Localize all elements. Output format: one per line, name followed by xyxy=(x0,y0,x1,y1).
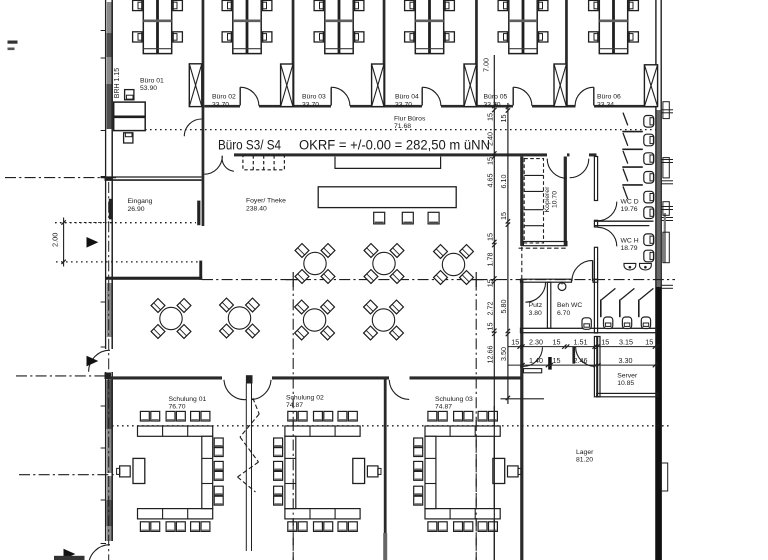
Putz/BehWC north wall xyxy=(521,279,598,282)
svg-text:2.30: 2.30 xyxy=(529,338,543,347)
svg-text:4.65: 4.65 xyxy=(486,174,495,188)
svg-text:3.30: 3.30 xyxy=(619,356,633,365)
room label Foyer xyxy=(246,198,286,213)
training rooms dotted guide xyxy=(112,425,670,427)
svg-text:6.10: 6.10 xyxy=(499,175,508,189)
room label Kopierer (rotated) xyxy=(544,186,559,212)
room label Buero 03 xyxy=(302,94,326,109)
svg-text:.15: .15 xyxy=(486,323,495,333)
room label Buero 06 xyxy=(597,94,621,109)
round table F4 xyxy=(151,299,191,339)
svg-text:Eingang: Eingang xyxy=(128,198,153,205)
entrance arrow 1 xyxy=(87,237,99,248)
corner markers top left xyxy=(8,41,18,51)
svg-text:1.40: 1.40 xyxy=(529,356,543,365)
svg-text:Schulung 03: Schulung 03 xyxy=(435,396,473,403)
hallway guide line xyxy=(501,398,545,400)
vertical dimension chain B ticks xyxy=(506,105,510,400)
bar stools xyxy=(374,212,439,224)
section line A xyxy=(493,55,495,560)
right exterior wall xyxy=(656,0,662,560)
svg-text:18.79: 18.79 xyxy=(621,245,638,252)
round table F5 xyxy=(220,298,260,338)
svg-text:6.70: 6.70 xyxy=(557,310,570,317)
svg-text:33.70: 33.70 xyxy=(484,101,501,108)
svg-text:Büro 01: Büro 01 xyxy=(140,77,164,84)
storage west wall xyxy=(520,157,523,560)
svg-text:12.66: 12.66 xyxy=(486,346,495,364)
axis line (vertical, left wall) xyxy=(108,182,110,560)
round table F7 xyxy=(364,300,404,340)
svg-text:10.85: 10.85 xyxy=(617,380,634,387)
svg-text:2.00: 2.00 xyxy=(51,233,60,247)
dimension 2.00 xyxy=(51,218,114,267)
svg-text:15: 15 xyxy=(511,338,519,347)
section line B xyxy=(507,103,509,404)
axis line (horizontal, Schulung wall) xyxy=(16,375,110,377)
door Buero 04 xyxy=(422,87,441,106)
svg-text:Büro S3/ S4: Büro S3/ S4 xyxy=(218,137,281,152)
svg-text:26.90: 26.90 xyxy=(128,206,145,213)
svg-text:33.70: 33.70 xyxy=(302,101,319,108)
room label WC D xyxy=(621,199,639,214)
round table F6 xyxy=(295,300,335,340)
WC anteroom north door xyxy=(570,159,589,178)
room label Lager xyxy=(576,449,594,464)
room label Buero 05 xyxy=(484,94,508,109)
svg-text:19.76: 19.76 xyxy=(621,206,638,213)
svg-text:5.80: 5.80 xyxy=(499,300,508,314)
office partition walls xyxy=(202,0,568,226)
svg-text:53.90: 53.90 xyxy=(140,85,157,92)
title text xyxy=(218,137,490,152)
svg-text:74.87: 74.87 xyxy=(286,402,303,409)
entrance dotted guide upper xyxy=(55,222,196,224)
svg-text:2.72: 2.72 xyxy=(486,302,495,316)
svg-text:3.15: 3.15 xyxy=(619,338,633,347)
shaft B04 xyxy=(464,64,476,107)
axis line (vertical, grid C) xyxy=(469,272,484,560)
entrance arrow 2 xyxy=(87,356,99,367)
room label Schulung 02 xyxy=(286,394,324,409)
axis line (horizontal, lectern) xyxy=(19,474,116,476)
svg-text:74.87: 74.87 xyxy=(435,403,452,410)
svg-text:15: 15 xyxy=(645,338,653,347)
door Buero 03 xyxy=(331,87,350,106)
svg-text:WC D: WC D xyxy=(621,199,639,206)
dashed opening line below Kopierer xyxy=(519,247,567,249)
WC D stall partitions xyxy=(622,113,643,200)
dimension texts chain A xyxy=(482,58,495,364)
axis line (vertical, grid B) xyxy=(286,272,301,560)
hallway door 2 (2.46) xyxy=(572,347,595,367)
door Buero 02 xyxy=(240,87,259,106)
svg-text:7.00: 7.00 xyxy=(482,58,491,72)
sanitary block south wall xyxy=(521,328,657,332)
vertical dimension chain A ticks xyxy=(492,104,496,336)
room label Schulung 03 xyxy=(435,396,473,411)
svg-text:Flur Büros: Flur Büros xyxy=(394,115,426,122)
sideboard at foyer wall xyxy=(335,157,441,169)
shaft B02 xyxy=(281,64,293,107)
side desk Buero 01 xyxy=(114,90,146,143)
desk group Buero 05 xyxy=(498,0,548,54)
grid C overlay xyxy=(475,420,477,560)
svg-text:15: 15 xyxy=(499,115,508,123)
svg-text:Büro 05: Büro 05 xyxy=(484,94,508,101)
entrance lobby north wall xyxy=(105,177,202,180)
training tables Schulung 01 xyxy=(117,411,224,531)
wall between Schulung 02 and 03 xyxy=(383,377,387,560)
entrance arrow 3 xyxy=(64,549,76,560)
room label Schulung 01 xyxy=(169,396,207,411)
corridor north wall (office front wall) xyxy=(204,105,656,108)
svg-text:Lager: Lager xyxy=(576,449,594,456)
svg-text:15: 15 xyxy=(499,212,508,220)
room label Flur Bueros xyxy=(394,115,426,130)
svg-text:71.68: 71.68 xyxy=(394,123,411,130)
section line A overlay (through furniture) xyxy=(493,406,495,560)
axis cross at entrance wall xyxy=(101,177,117,179)
svg-text:Schulung 02: Schulung 02 xyxy=(286,394,324,401)
room label Beh WC xyxy=(557,302,582,317)
shaft B03 xyxy=(372,64,384,107)
dimension texts chain B xyxy=(499,115,508,362)
svg-text:33.70: 33.70 xyxy=(395,101,412,108)
mobile partition Schulung 01/02 xyxy=(238,384,260,552)
server room walls xyxy=(597,337,658,397)
svg-text:3.80: 3.80 xyxy=(529,310,542,317)
WC H door xyxy=(598,227,617,246)
svg-text:3.50: 3.50 xyxy=(499,347,508,361)
foyer north wall xyxy=(234,153,597,156)
corridor dotted guide xyxy=(145,129,656,131)
Kopierer room walls xyxy=(523,157,567,246)
Putz / Beh WC divider wall xyxy=(547,282,550,328)
desk group Buero 03 xyxy=(314,0,364,54)
axis line (horizontal, mid foyer) xyxy=(202,279,675,281)
svg-text:81.20: 81.20 xyxy=(576,457,593,464)
shaft B06 xyxy=(644,65,657,107)
left wall window sill ticks xyxy=(101,31,106,544)
right wall exterior ticks xyxy=(661,102,673,491)
room label Putz xyxy=(529,302,543,317)
Theke counter xyxy=(318,187,456,208)
Schulung 03 door xyxy=(389,380,409,400)
svg-text:15: 15 xyxy=(486,113,495,121)
hallway door 1 (1.40) xyxy=(523,347,543,373)
svg-text:BRH 1.15: BRH 1.15 xyxy=(114,68,121,98)
horizontal dimension chain lower xyxy=(508,356,658,367)
room label Buero 02 xyxy=(212,94,236,109)
svg-text:15: 15 xyxy=(553,356,561,365)
round table F1 xyxy=(295,244,335,284)
door Buero 06 xyxy=(575,87,594,106)
wardrobe (dashed) xyxy=(243,155,285,170)
svg-text:Büro 04: Büro 04 xyxy=(395,94,419,101)
svg-text:15: 15 xyxy=(553,338,561,347)
desk group Buero 04 xyxy=(405,0,455,54)
svg-text:WC H: WC H xyxy=(621,238,639,245)
room label Server xyxy=(617,373,638,388)
WC H urinals xyxy=(624,263,651,270)
svg-text:Büro 06: Büro 06 xyxy=(597,94,621,101)
svg-text:76.70: 76.70 xyxy=(169,403,186,410)
training tables Schulung 02 xyxy=(274,411,381,531)
door Buero 05 xyxy=(513,87,532,106)
WC H toilets xyxy=(644,234,654,262)
WC D toilets xyxy=(644,116,654,219)
svg-text:15: 15 xyxy=(601,338,609,347)
entrance door (west wall) xyxy=(89,350,110,372)
svg-text:33.34: 33.34 xyxy=(597,101,614,108)
round table F2 xyxy=(364,244,404,284)
svg-text:Beh WC: Beh WC xyxy=(557,302,582,309)
Beh WC door xyxy=(572,260,593,281)
horizontal dimension chain upper xyxy=(508,338,660,349)
Beh WC fixtures xyxy=(558,282,591,330)
Kopierer shelf xyxy=(524,159,543,243)
axis line A (horizontal, entrance) xyxy=(5,177,110,179)
WC D door xyxy=(598,202,617,221)
grid B overlay xyxy=(292,420,294,560)
svg-text:Putz: Putz xyxy=(529,302,543,309)
svg-text:15: 15 xyxy=(486,233,495,241)
svg-text:15: 15 xyxy=(486,157,495,165)
Putz door xyxy=(525,282,545,302)
door Buero 01 xyxy=(184,119,201,136)
svg-text:Büro 02: Büro 02 xyxy=(212,94,236,101)
entrance dotted guide lower xyxy=(56,261,201,263)
desk group Buero 02 xyxy=(222,0,272,54)
foyer entrance double door xyxy=(204,156,234,174)
svg-text:15: 15 xyxy=(486,279,495,287)
svg-text:OKRF = +/-0.00 = 282,50 m üNN: OKRF = +/-0.00 = 282,50 m üNN xyxy=(299,137,490,152)
svg-text:238.40: 238.40 xyxy=(246,205,267,212)
WC H lower stalls xyxy=(601,288,654,328)
foyer west low wall xyxy=(106,261,203,280)
room label Buero 04 xyxy=(395,94,419,109)
round table F3 xyxy=(434,245,474,285)
WC D / WC H divider wall xyxy=(594,221,653,225)
Schulung 01/02 double door xyxy=(224,375,271,399)
svg-text:2.46: 2.46 xyxy=(574,356,588,365)
svg-text:Büro 03: Büro 03 xyxy=(302,94,326,101)
training rooms north wall xyxy=(110,376,523,379)
lower west door xyxy=(89,545,111,560)
room label Eingang xyxy=(128,198,153,213)
desk group Buero 01 xyxy=(133,0,183,54)
svg-text:33.70: 33.70 xyxy=(212,101,229,108)
hallway wall pier xyxy=(548,357,552,370)
svg-text:Foyer/ Theke: Foyer/ Theke xyxy=(246,198,286,205)
shaft B01 xyxy=(189,64,202,107)
svg-text:Kopierer: Kopierer xyxy=(544,186,551,212)
left exterior wall xyxy=(105,0,113,541)
shaft B05 xyxy=(554,64,566,107)
svg-text:1.78: 1.78 xyxy=(486,253,495,267)
Kopierer door xyxy=(547,159,567,179)
bottom south wall stub xyxy=(54,556,85,560)
training tables Schulung 03 xyxy=(414,411,521,531)
room label Buero 01 xyxy=(140,77,164,92)
entrance windfang posts xyxy=(109,199,201,225)
WC anteroom / server west wall xyxy=(594,157,597,397)
svg-text:1.51: 1.51 xyxy=(574,338,588,347)
room label WC H xyxy=(621,238,639,253)
svg-text:Server: Server xyxy=(617,373,638,380)
svg-text:10.70: 10.70 xyxy=(552,191,559,208)
desk group Buero 06 xyxy=(589,0,639,54)
svg-text:Schulung 01: Schulung 01 xyxy=(169,396,207,403)
